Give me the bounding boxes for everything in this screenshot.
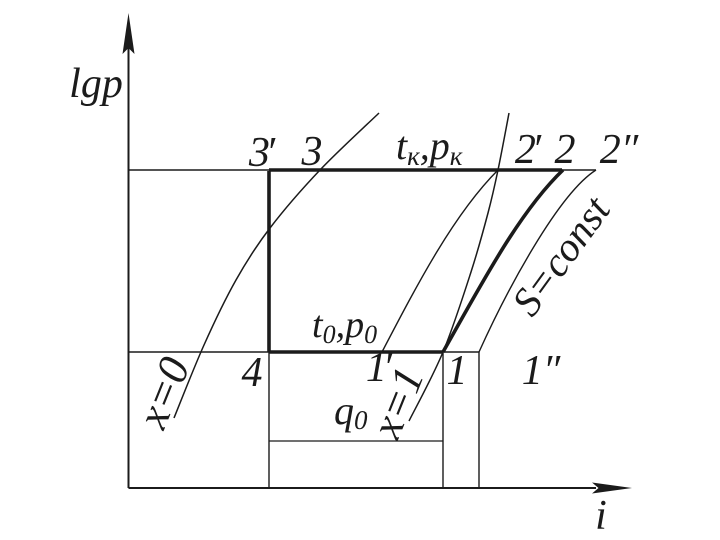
svg-text:t0,p0: t0,p0 [312, 304, 377, 349]
svg-text:S=const: S=const [502, 186, 619, 323]
svg-text:2: 2 [555, 127, 576, 173]
svg-text:lgp: lgp [69, 61, 123, 107]
svg-text:2′: 2′ [515, 127, 542, 173]
svg-text:1: 1 [447, 348, 468, 394]
svg-text:tк,pк: tк,pк [396, 123, 463, 171]
svg-text:4: 4 [242, 350, 263, 396]
svg-text:1″: 1″ [522, 348, 561, 394]
svg-text:3: 3 [301, 129, 323, 175]
svg-text:2″: 2″ [600, 127, 639, 173]
svg-text:i: i [595, 493, 607, 539]
svg-text:x=0: x=0 [127, 350, 199, 435]
